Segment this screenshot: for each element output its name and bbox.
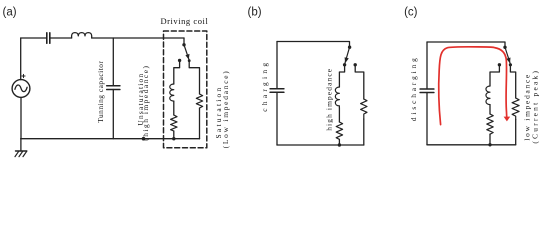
saturation resistance zigzag (b right) [361,99,367,119]
tuning capacitor branch wire lower [112,90,114,139]
wire cap to inductor [50,37,72,39]
wire resistor to bottom (c) [489,134,491,145]
svg-text:(high impedance): (high impedance) [141,64,150,140]
switch feed node (b) [348,46,351,49]
svg-text:(a): (a) [3,6,17,18]
svg-text:Tunning capacitor: Tunning capacitor [96,61,105,123]
bottom wire (c) [427,144,516,146]
svg-text:(Low impedance): (Low impedance) [221,69,230,148]
saturation resistance zigzag (a right) [196,94,202,108]
wire right contact to resistor branch (c) [510,65,515,98]
wire resistor to bottom [173,131,175,139]
switch blade to low impedance side (c) [505,49,510,65]
switch feed wire (a) [183,38,185,45]
right contact node (a) [188,59,191,62]
winding resistance zigzag (b left) [336,122,342,139]
bottom wire (a) [21,138,200,140]
svg-text:charging: charging [260,60,269,112]
discharging capacitor C (c) [420,88,434,90]
wire resistor branch to bottom (c) [515,120,517,145]
junction node bottom wire (a) [142,137,146,141]
wire inductor to switch feed [92,37,184,39]
switch blade to saturation side (a) [184,46,189,60]
wire coil to resistor (b) [338,108,340,122]
saturation resistance zigzag (c right) [512,98,519,120]
junction node (b) [338,143,341,146]
capacitor C top (a) [46,33,48,43]
ground stub [20,139,22,151]
junction node (c) [488,143,491,146]
wire resistor to bottom (b) [338,139,340,145]
svg-text:(c): (c) [404,6,418,18]
svg-text:high impedance: high impedance [325,68,334,131]
svg-text:discharging: discharging [409,55,418,121]
AC source G (a) [12,80,30,98]
left wire lower (c) [426,93,428,145]
svg-text:(Current peak): (Current peak) [531,69,540,144]
tuning capacitor branch wire upper [112,38,114,86]
left contact node (c) [498,63,501,66]
left wire upper (b) [276,42,278,89]
unsaturated inductance coil (b) [335,87,339,108]
inductor L top (a) [72,33,92,38]
wire right contact to resistor branch (b) [355,65,364,99]
top wire (c) [427,42,505,47]
dashed box driving coil [164,31,207,148]
left wire upper (c) [426,42,428,89]
wire left contact to coil branch (c) [490,65,499,86]
ground [16,150,27,152]
wire resistor branch to bottom (b) [363,119,365,145]
charging capacitor C (b) [270,88,284,90]
right contact node (b) [354,63,357,66]
wire right contact to saturation branch [189,61,199,94]
switch feed node (c) [503,46,506,49]
left contact node (b) [343,63,346,66]
wire left contact to coil branch (b) [339,65,344,87]
winding resistance zigzag (c left) [487,114,493,134]
switch blade to high impedance side (b) [345,48,350,64]
unsaturated inductance coil (c) [486,86,490,105]
wire left contact to coil branch [174,61,180,84]
discharge current path red arrow [439,47,507,125]
tuning capacitor C (a) [107,85,120,87]
left wire lower (b) [276,92,278,145]
wire coil to resistor (c) [489,105,491,114]
wire top-left horizontal (a) [21,37,47,39]
unsaturated inductance coil (a) [170,84,174,101]
winding resistance zigzag (a left) [171,115,177,131]
top wire (b) [277,42,350,48]
wire coil to resistor [173,101,175,115]
svg-text:Driving coil: Driving coil [160,16,208,26]
right contact node (c) [509,63,512,66]
svg-text:(b): (b) [248,6,262,18]
left contact node (a) [178,59,181,62]
wire saturation branch to bottom corner [199,108,201,139]
junction node left branch bottom (a) [172,137,175,140]
bottom wire (b) [277,144,364,146]
wire left vertical (a) [20,38,22,80]
wire source to bottom (a) [20,97,22,138]
switch feed node (a) [182,43,185,46]
plus polarity mark [22,75,25,77]
